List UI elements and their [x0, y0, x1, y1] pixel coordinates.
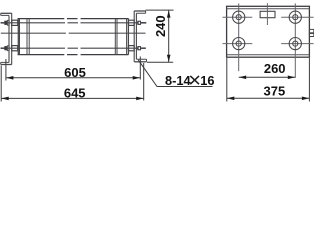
leader line for slot callout	[138, 60, 212, 87]
svg-text:375: 375	[264, 84, 286, 99]
washer lower-left	[7, 46, 9, 51]
svg-text:260: 260	[264, 61, 286, 76]
dimension 260	[239, 76, 296, 78]
terminal box on plate	[260, 11, 275, 17]
bolt nut lower-left	[4, 46, 7, 50]
wire: main axis centerline	[1, 32, 146, 34]
arrowhead 240 top	[167, 10, 171, 17]
wire: upper bolt axis line	[1, 22, 146, 24]
right view: base plate top view	[223, 3, 314, 78]
svg-text:645: 645	[64, 86, 86, 101]
right mounting bracket (channel, top flange)	[134, 11, 145, 13]
terminal box centerline	[266, 3, 268, 25]
dimension line 605	[6, 77, 140, 79]
edge lug lower	[309, 34, 313, 37]
hole centerline column left	[238, 3, 240, 71]
left mounting bracket (angle, bottom flange)	[1, 62, 12, 64]
spacer block lower-left	[12, 46, 18, 51]
dimension line 260	[239, 76, 296, 78]
arrowhead 645 right	[136, 97, 143, 101]
svg-text:8-14: 8-14	[165, 73, 191, 88]
bolt hole bottom-left	[233, 38, 245, 50]
arrowhead 375 left	[227, 97, 234, 101]
dimension line 645	[1, 97, 144, 99]
bolt hole top-right	[289, 11, 301, 23]
bolt hole bottom-right	[289, 38, 301, 50]
svg-text:240: 240	[153, 15, 168, 37]
spacer block upper-left	[12, 20, 18, 25]
svg-text:16: 16	[200, 73, 214, 88]
bolt stud upper-right thread	[141, 22, 146, 24]
bolt nut upper-right	[137, 21, 141, 25]
edge lug upper	[309, 29, 313, 32]
dimension 645	[1, 63, 144, 102]
arrowhead 605 left	[6, 76, 13, 80]
left bracket vertical leg	[9, 13, 12, 64]
bolt stud lower-right thread	[141, 47, 146, 49]
right bracket vertical leg	[134, 11, 136, 62]
plate outline	[227, 6, 310, 57]
extension line right (645)	[143, 63, 145, 101]
arrowhead 240 bottom	[167, 55, 171, 62]
bolt nut upper-left	[4, 21, 7, 25]
svg-text:605: 605	[64, 65, 86, 80]
spacer block lower-right	[129, 46, 135, 51]
washer upper-left	[7, 20, 9, 25]
bolt hole top-left	[233, 11, 245, 23]
extension line left (605)	[5, 59, 7, 81]
bolt stud lower-left thread	[1, 47, 5, 49]
right end cap	[115, 19, 128, 55]
extension line right (605)	[139, 57, 141, 80]
body top outline	[18, 18, 129, 20]
extension line right (375)	[308, 58, 310, 102]
body bottom outline	[18, 54, 129, 56]
dimension 240	[146, 10, 174, 62]
arrowhead 260 right	[288, 76, 295, 80]
dimension 375	[227, 58, 310, 102]
plate inner top edge	[227, 8, 310, 10]
slot callout multiplication cross	[190, 76, 199, 84]
plate inner bottom edge	[227, 54, 310, 56]
extension line left (375)	[226, 58, 228, 102]
spacer block upper-right	[129, 20, 135, 25]
hole centerline row bottom	[223, 43, 314, 45]
left view: vibrator body side elevation	[1, 11, 147, 65]
dimension line 375	[227, 97, 310, 99]
wire: lower bolt axis line	[1, 47, 146, 49]
right mounting bracket (channel, bottom flange)	[134, 59, 146, 62]
extension line bottom (240)	[147, 61, 173, 63]
arrowhead 375 right	[302, 97, 309, 101]
left end cap	[18, 19, 29, 55]
left mounting bracket (angle, top flange)	[1, 13, 12, 15]
arrowhead 645 left	[2, 97, 9, 101]
hole centerline column right	[294, 3, 296, 77]
arrowhead 260 left	[239, 76, 246, 80]
bolt nut lower-right	[137, 46, 141, 50]
hole centerline row top	[223, 16, 314, 18]
dimension 605	[6, 57, 140, 81]
bolt stud upper-left thread	[1, 22, 5, 24]
dimension line 240	[168, 10, 170, 62]
arrowhead 605 right	[133, 76, 140, 80]
extension line left (645)	[0, 66, 2, 102]
extension line top (240)	[146, 9, 174, 11]
